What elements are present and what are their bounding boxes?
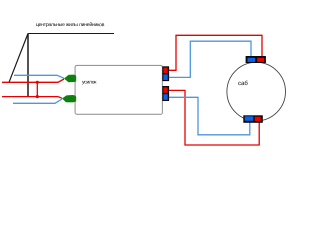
amp terminal 1 red cell bbox=[163, 68, 167, 74]
sub terminal top blue cell bbox=[248, 58, 256, 62]
amplifier box bbox=[75, 65, 162, 114]
sub terminal bottom blue cell bbox=[245, 116, 254, 121]
wire blue input left bbox=[14, 75, 64, 78]
amp terminal 2 blue cell bbox=[163, 94, 167, 100]
svg-text:усилок: усилок bbox=[82, 80, 97, 86]
wire red input left bbox=[2, 79, 64, 82]
junction dot bottom bbox=[36, 95, 39, 98]
wire blue amp to sub top bbox=[169, 41, 251, 77]
sub terminal block top bbox=[246, 56, 266, 63]
svg-text:центральные жилы линейников: центральные жилы линейников bbox=[36, 21, 105, 28]
amp terminal 1 blue cell bbox=[163, 74, 167, 80]
sub terminal block bottom bbox=[243, 115, 262, 123]
svg-text:саб: саб bbox=[238, 81, 248, 87]
red jumper wire bbox=[36, 82, 38, 96]
amp terminal block 1 bbox=[162, 66, 169, 81]
RCA plug green top bbox=[64, 75, 76, 83]
sub terminal top red cell bbox=[257, 58, 264, 62]
junction dot top bbox=[36, 81, 39, 84]
wire red amp to sub bottom bbox=[169, 90, 259, 145]
amp terminal block 2 bbox=[162, 86, 169, 101]
subwoofer circle bbox=[227, 62, 286, 121]
sub terminal bottom red cell bbox=[255, 117, 261, 121]
leader line diagonal bbox=[9, 34, 28, 83]
RCA plug green bottom bbox=[62, 95, 76, 102]
leader line vertical bbox=[27, 34, 29, 97]
amp terminal 2 red cell bbox=[163, 87, 167, 93]
wire red input right bbox=[2, 97, 62, 99]
wire blue amp to sub bottom bbox=[169, 97, 250, 135]
leader line horizontal bbox=[28, 33, 114, 35]
wire red amp to sub top bbox=[169, 35, 262, 70]
wire blue input right bbox=[13, 99, 62, 103]
